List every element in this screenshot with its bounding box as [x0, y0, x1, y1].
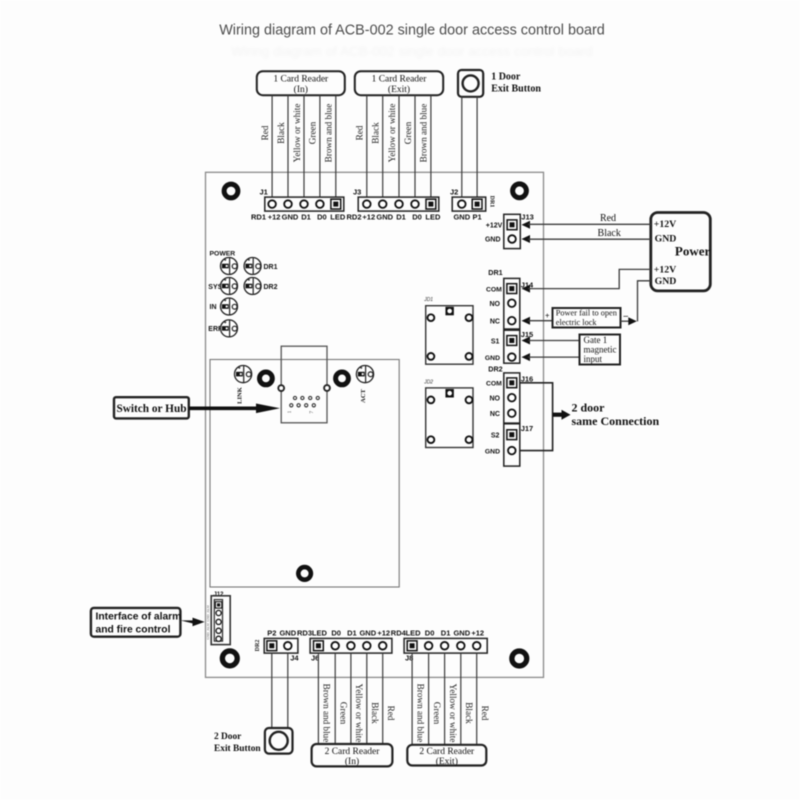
svg-text:input: input [584, 354, 603, 364]
svg-text:Wiring diagram of ACB-002 sing: Wiring diagram of ACB-002 single door ac… [231, 44, 593, 59]
svg-text:J12: J12 [214, 592, 225, 598]
svg-text:2 Card Reader: 2 Card Reader [419, 747, 475, 757]
svg-text:ALM: ALM [206, 605, 210, 613]
svg-text:J3: J3 [353, 188, 361, 197]
svg-text:+12: +12 [377, 628, 390, 637]
svg-text:+12: +12 [268, 213, 281, 222]
svg-text:D1: D1 [396, 213, 406, 222]
svg-text:J17: J17 [521, 424, 534, 433]
svg-text:Yellow or white: Yellow or white [354, 684, 364, 743]
svg-text:D1: D1 [301, 213, 311, 222]
svg-text:LED: LED [330, 213, 346, 222]
svg-text:Yellow or white: Yellow or white [292, 104, 302, 163]
svg-text:1 Card Reader: 1 Card Reader [372, 75, 428, 85]
svg-text:GND: GND [485, 448, 500, 455]
svg-text:D0: D0 [331, 628, 341, 637]
svg-text:+: + [224, 258, 227, 264]
svg-text:+: + [360, 366, 363, 372]
svg-text:GND: GND [485, 355, 500, 362]
svg-text:ACT: ACT [360, 388, 367, 402]
svg-text:and fire control: and fire control [96, 624, 171, 635]
svg-text:JD2: JD2 [423, 379, 433, 385]
svg-text:Red: Red [386, 706, 396, 721]
svg-text:GND: GND [282, 213, 299, 222]
svg-text:J1: J1 [260, 188, 268, 197]
svg-text:GND: GND [655, 276, 677, 287]
svg-text:Black: Black [464, 702, 474, 724]
svg-text:same Connection: same Connection [572, 414, 660, 428]
svg-text:(In): (In) [294, 84, 308, 95]
svg-text:J2: J2 [450, 188, 458, 197]
svg-text:Yellow or white: Yellow or white [448, 684, 458, 743]
svg-text:GND: GND [655, 233, 677, 244]
svg-text:Green: Green [338, 702, 348, 725]
svg-text:D1: D1 [347, 628, 357, 637]
svg-text:RD1: RD1 [251, 213, 266, 222]
svg-text:+12V: +12V [654, 219, 676, 230]
svg-text:Brown and blue: Brown and blue [324, 104, 334, 163]
svg-text:S1: S1 [491, 338, 500, 345]
svg-text:IN: IN [210, 304, 217, 311]
svg-text:P1: P1 [473, 213, 482, 222]
svg-text:Green: Green [403, 121, 413, 144]
svg-text:Wiring diagram of ACB-002 sing: Wiring diagram of ACB-002 single door ac… [219, 23, 605, 39]
svg-text:–: – [622, 310, 628, 320]
svg-text:+12: +12 [362, 213, 375, 222]
svg-text:Green: Green [308, 121, 318, 144]
svg-text:NC: NC [490, 318, 500, 325]
svg-text:ALM: ALM [206, 623, 210, 631]
svg-text:Black: Black [598, 228, 621, 239]
svg-text:+12: +12 [471, 628, 484, 637]
svg-text:(In): (In) [345, 756, 359, 767]
svg-text:GND: GND [206, 632, 210, 640]
svg-text:+: + [247, 258, 250, 264]
svg-text:Exit Button: Exit Button [214, 744, 261, 754]
svg-text:JD1: JD1 [423, 297, 433, 303]
svg-text:+: + [238, 366, 241, 372]
svg-text:J13: J13 [521, 213, 534, 222]
svg-text:Brown and blue: Brown and blue [419, 104, 429, 163]
svg-text:Yellow or white: Yellow or white [387, 104, 397, 163]
svg-text:RD2: RD2 [346, 213, 361, 222]
svg-text:GND: GND [453, 213, 470, 222]
svg-text:COM: COM [486, 381, 502, 388]
svg-text:J4: J4 [290, 653, 299, 662]
svg-text:Green: Green [432, 702, 442, 725]
svg-text:+: + [224, 320, 227, 326]
svg-text:RD3: RD3 [297, 628, 312, 637]
svg-text:Brown and blue: Brown and blue [322, 684, 332, 743]
svg-text:NC: NC [490, 411, 500, 418]
svg-text:+: + [224, 298, 227, 304]
svg-text:2 Card Reader: 2 Card Reader [325, 747, 381, 757]
svg-text:Power fail to open: Power fail to open [556, 309, 618, 318]
svg-text:DR1: DR1 [489, 196, 495, 208]
svg-text:COM: COM [486, 286, 502, 293]
svg-text:Switch or Hub: Switch or Hub [116, 403, 186, 415]
svg-text:GND: GND [453, 628, 470, 637]
svg-text:RD4: RD4 [391, 628, 407, 637]
svg-text:DR1: DR1 [264, 264, 278, 271]
svg-text:(Exit): (Exit) [436, 756, 458, 767]
svg-text:2 door: 2 door [572, 400, 606, 414]
svg-text:1 Card Reader: 1 Card Reader [273, 75, 329, 85]
svg-text:+: + [224, 278, 227, 284]
svg-text:+: + [545, 311, 550, 320]
svg-text:NO: NO [490, 395, 501, 402]
svg-text:2 Door: 2 Door [214, 732, 241, 742]
svg-text:DR2: DR2 [488, 365, 502, 374]
svg-text:D0: D0 [425, 628, 435, 637]
svg-text:D1: D1 [441, 628, 451, 637]
svg-text:LINK: LINK [237, 387, 244, 404]
svg-text:Interface of alarm: Interface of alarm [96, 611, 182, 622]
svg-text:DR2: DR2 [255, 640, 261, 652]
svg-text:+12V: +12V [486, 223, 503, 230]
svg-text:GND: GND [206, 614, 210, 622]
svg-text:Black: Black [276, 122, 286, 144]
svg-text:NO: NO [490, 301, 501, 308]
svg-text:D0: D0 [412, 213, 422, 222]
svg-text:(Exit): (Exit) [388, 84, 410, 95]
svg-text:Brown and blue: Brown and blue [415, 684, 425, 743]
svg-text:Exit Button: Exit Button [491, 84, 541, 95]
svg-text:J15: J15 [521, 330, 534, 339]
svg-text:POWER: POWER [210, 251, 236, 258]
svg-text:1 Door: 1 Door [491, 72, 521, 83]
svg-text:LED: LED [425, 213, 441, 222]
svg-text:Power: Power [675, 244, 711, 259]
svg-text:GND: GND [485, 237, 501, 244]
svg-text:Gate 1: Gate 1 [584, 335, 608, 345]
svg-text:Red: Red [600, 213, 616, 224]
svg-text:P2: P2 [267, 628, 276, 637]
svg-text:LED: LED [406, 628, 422, 637]
svg-text:GND: GND [376, 213, 393, 222]
svg-text:Red: Red [480, 706, 490, 721]
svg-text:GND: GND [359, 628, 376, 637]
svg-text:GND: GND [279, 628, 296, 637]
svg-text:+: + [247, 278, 250, 284]
svg-text:S2: S2 [491, 433, 500, 440]
svg-text:Black: Black [371, 122, 381, 144]
svg-text:LED: LED [312, 628, 328, 637]
svg-text:Red: Red [355, 125, 365, 140]
svg-text:Red: Red [260, 125, 270, 140]
svg-text:+12V: +12V [654, 264, 676, 275]
svg-text:DR2: DR2 [264, 284, 278, 291]
svg-text:electric lock: electric lock [556, 318, 598, 327]
svg-text:Black: Black [370, 702, 380, 724]
svg-text:1: 1 [287, 410, 293, 413]
svg-text:D0: D0 [317, 213, 327, 222]
svg-text:7: 7 [309, 411, 315, 414]
svg-text:DR1: DR1 [488, 268, 502, 277]
